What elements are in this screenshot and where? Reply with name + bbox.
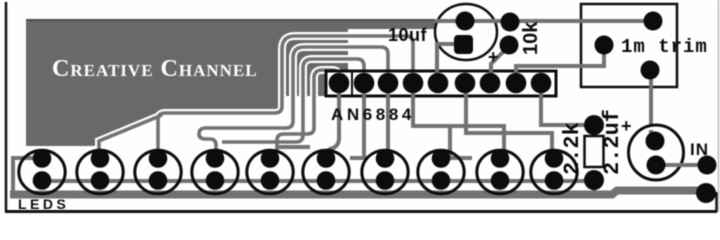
pads: LED D6 (317, 149, 336, 168)
capacitor C1 internal wire (434, 21, 500, 58)
LED D8 outline (418, 150, 464, 194)
wire trim bottom pad to cap 2.2uf plus (649, 75, 653, 138)
pads: capacitor C1 10uf (456, 12, 475, 31)
resistor R1 2.2k body (585, 136, 604, 167)
wire LED bottom bus (36, 179, 590, 183)
wire pin6 down to LED10 (466, 90, 554, 158)
wire cap 2.2uf minus to IN pad (660, 163, 704, 167)
svg-text:Creative Channel: Creative Channel (52, 56, 258, 82)
ring trace A (pin4 to LED2) casing (99, 36, 413, 155)
ground pour (gray block) main (26, 19, 280, 146)
svg-text:+: + (621, 116, 632, 136)
wire pin1 down to LED6 (326, 90, 339, 152)
svg-text:10uf: 10uf (388, 25, 428, 45)
board border bottom (5, 210, 717, 213)
LED D9 outline (477, 150, 523, 194)
LED D3 outline (135, 150, 181, 194)
LED D6 outline (303, 150, 349, 194)
svg-text:IN: IN (690, 140, 709, 159)
ground pour top strip (348, 19, 435, 29)
wire 10k bottom pad to pin7 (491, 49, 506, 78)
svg-text:1m trim: 1m trim (621, 36, 708, 58)
pads: LED D10 (545, 149, 564, 168)
LED D7 outline (362, 150, 408, 194)
wire pin2 down to LED6-7 link (350, 90, 368, 158)
ring trace D core (277, 70, 339, 153)
LED D5 outline (247, 150, 293, 194)
wire pin8 up to trim mid pad (516, 50, 604, 78)
LED D1 outline (19, 150, 65, 194)
wire thick ground bus bottom (10, 191, 704, 195)
board border right faint (718, 0, 720, 212)
svg-text:AN6884: AN6884 (331, 105, 415, 124)
wire pin9 to resistor top (541, 90, 588, 125)
pads: trimmer VR1 (644, 12, 663, 31)
pads: LED D7 (376, 149, 395, 168)
capacitor C1 10uf outline (435, 4, 497, 60)
LED D2 outline (77, 150, 123, 194)
board border right segment (715, 192, 718, 212)
pads: LED D1 (33, 149, 52, 168)
wire pin3 down to LED7 (386, 90, 390, 155)
svg-text:10k: 10k (520, 21, 542, 55)
pour darker top edge (26, 19, 435, 21)
pad: IN input (698, 156, 717, 175)
LED D4 outline (192, 150, 238, 194)
svg-text:2.2k: 2.2k (560, 122, 585, 175)
pads: LED D4 (206, 149, 225, 168)
wire cap 10uf minus to pin5 stub (435, 50, 439, 74)
board border left (5, 2, 8, 212)
pads: resistor R1 2.2k (584, 115, 604, 135)
ring trace C (pin2 to LED4) casing (222, 59, 364, 142)
pads: LED D9 (491, 149, 510, 168)
IC U1 pin1 divider (351, 71, 353, 96)
pads: LED D8 (432, 149, 451, 168)
pads: LED D2 (91, 149, 110, 168)
wire LED1 top to ground bus (13, 158, 36, 192)
capacitor C2 internal wires (651, 130, 686, 165)
ring trace B core (199, 47, 388, 150)
ground pour ring-corner region (280, 19, 348, 73)
IC U1 AN6884 header box (326, 71, 556, 96)
ring trace B (pin3 to LED3) casing (199, 47, 388, 150)
pad: ground bottom right (696, 183, 716, 203)
pads: capacitor C2 2.2uf (646, 132, 665, 151)
pads: LED D3 (149, 149, 168, 168)
capacitor C2 2.2uf outline (629, 125, 684, 180)
ring trace C core (222, 59, 364, 142)
wire pin4 down to LED8 and LED9 (413, 90, 504, 158)
pads: resistor 10k (501, 13, 520, 32)
wire resistor bottom stub to ground bus (592, 184, 596, 194)
trimmer VR1 box (581, 4, 677, 87)
pads: IC U1 pins 1-9 (329, 73, 350, 94)
wire LED5 to LED6 jog (277, 145, 310, 149)
svg-text:+: + (488, 47, 499, 67)
pads: LED D5 (261, 149, 280, 168)
LED D10 outline (531, 150, 577, 194)
ring trace D (pin1 to LED5) casing (277, 70, 339, 153)
svg-text:LEDS: LEDS (18, 196, 69, 212)
ring trace A core (99, 36, 413, 155)
wire supply bus: cap plus to 10k top to trim top (466, 19, 648, 23)
